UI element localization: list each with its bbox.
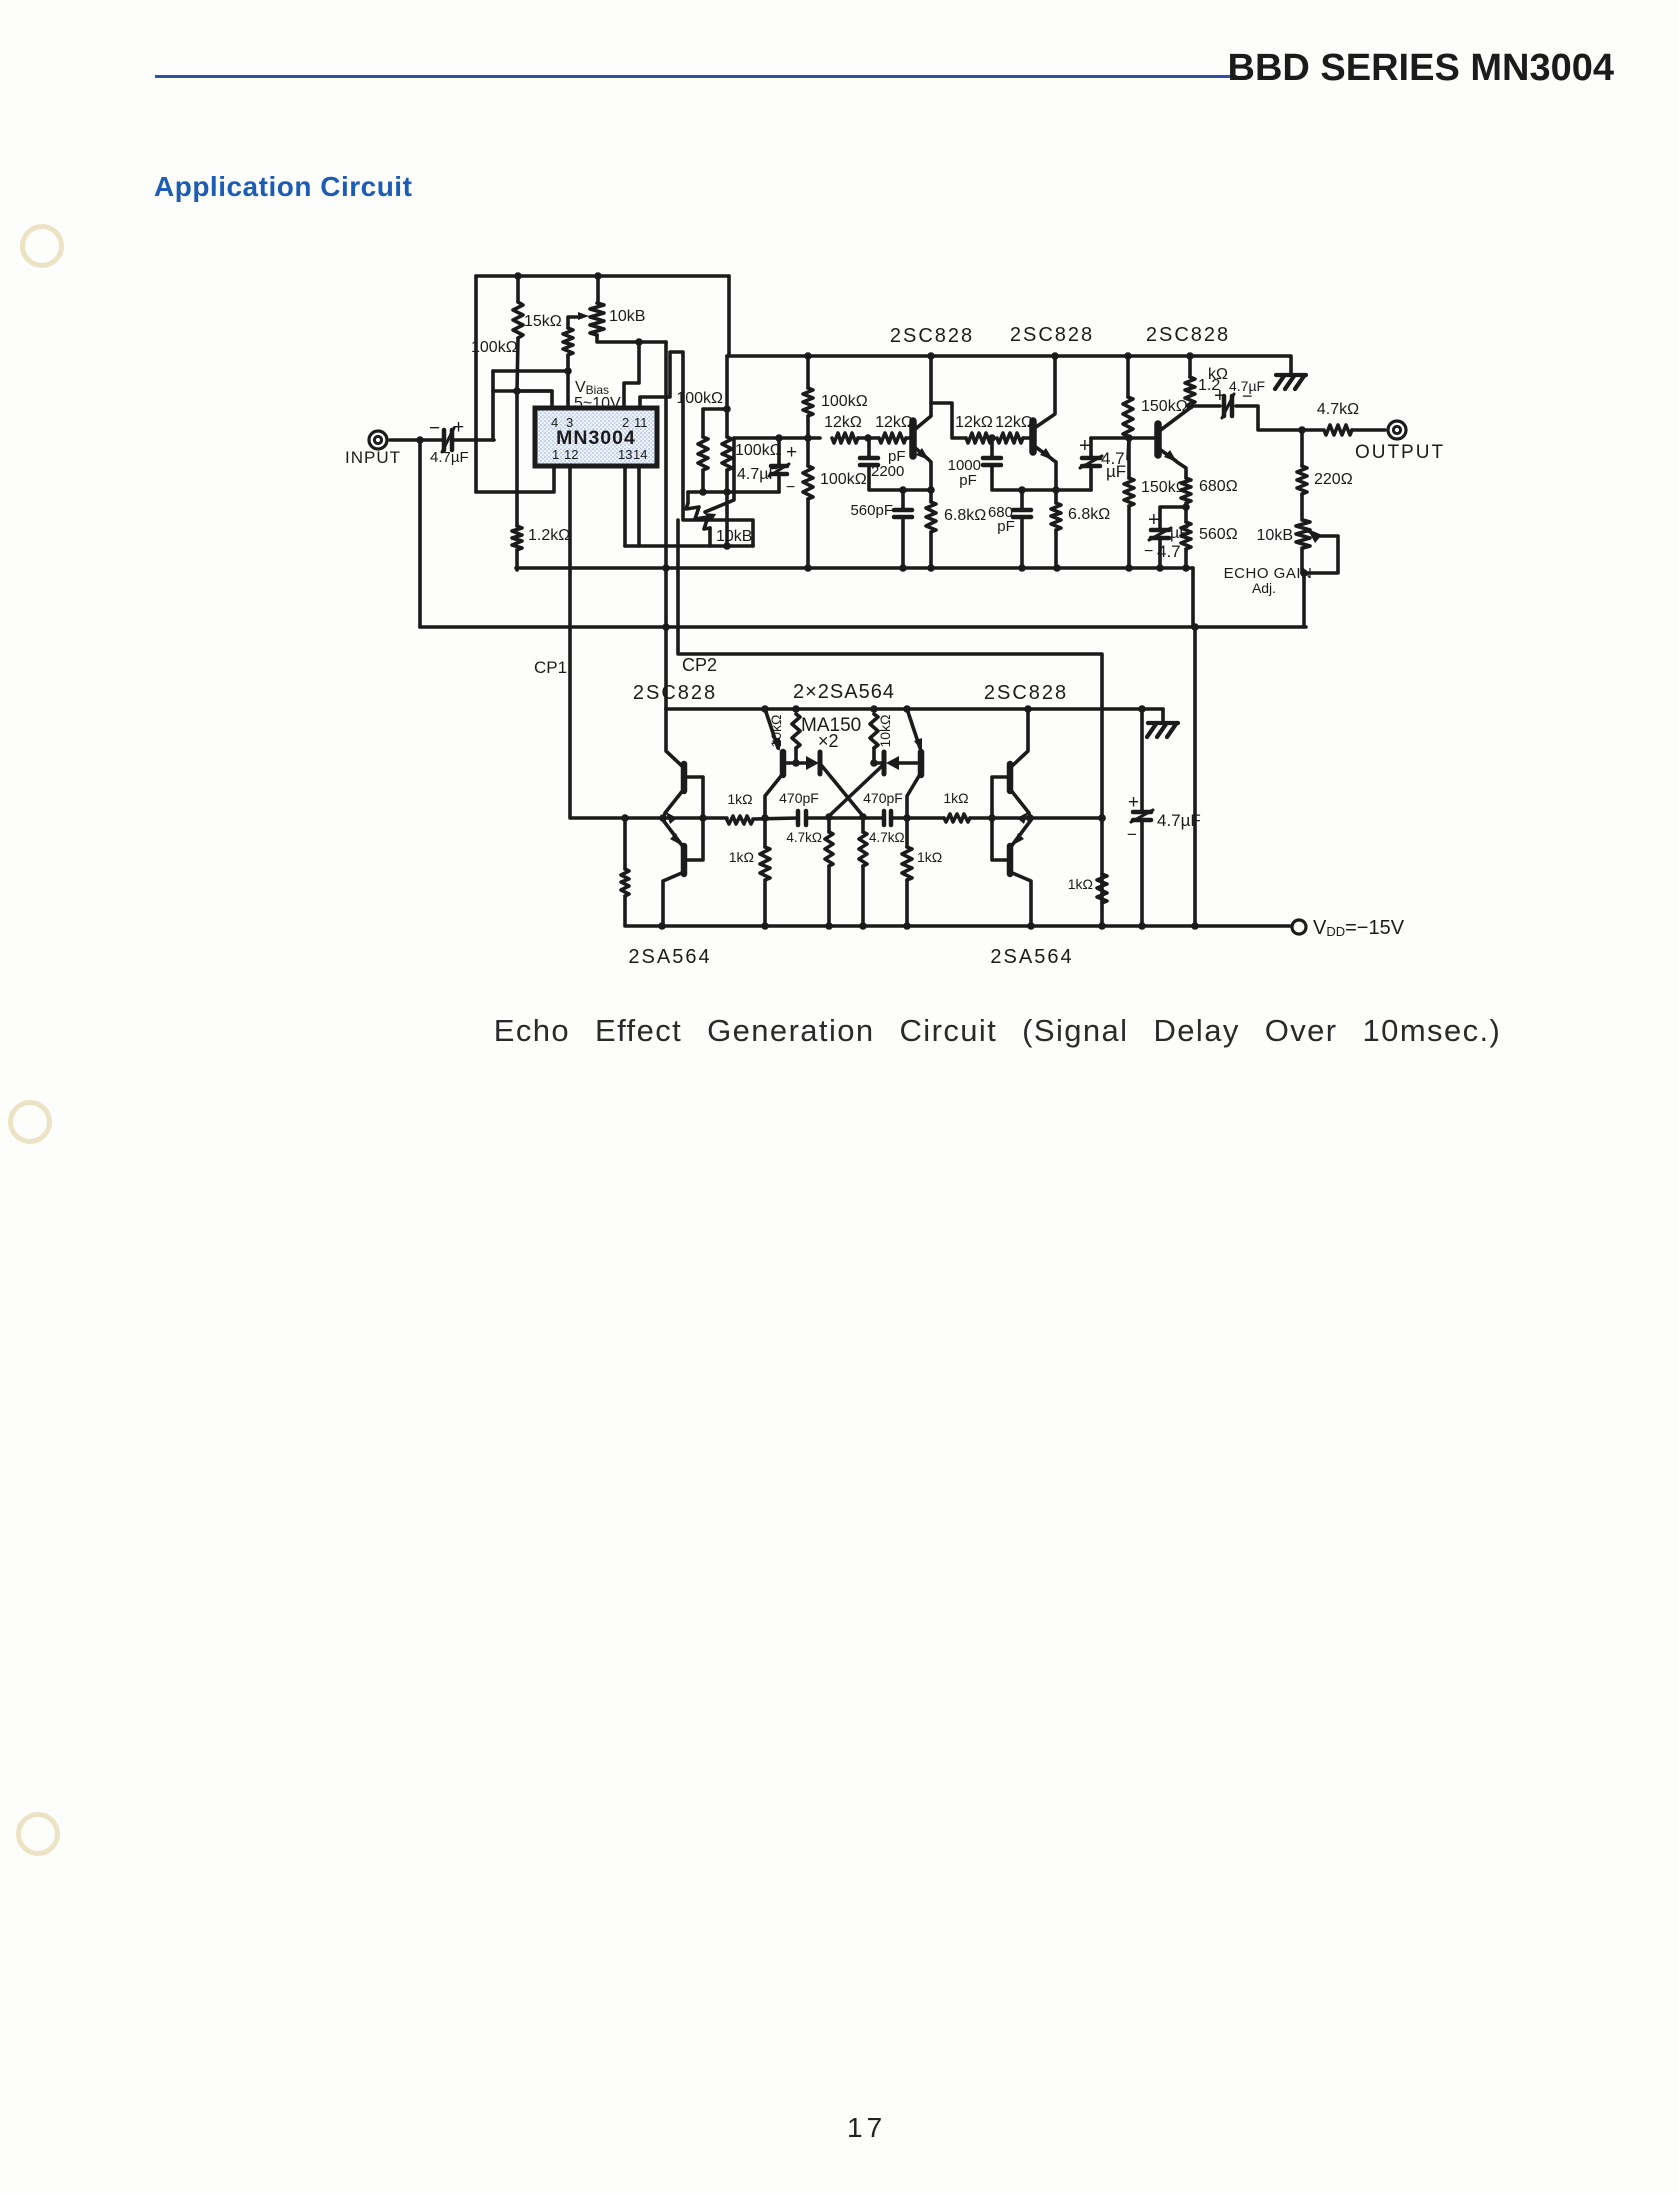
svg-text:4.7kΩ: 4.7kΩ bbox=[786, 830, 822, 845]
svg-text:13: 13 bbox=[618, 447, 632, 462]
svg-text:1kΩ: 1kΩ bbox=[1068, 876, 1093, 892]
svg-text:2200: 2200 bbox=[871, 463, 904, 480]
svg-text:2SC828: 2SC828 bbox=[890, 325, 974, 347]
svg-text:4: 4 bbox=[551, 415, 558, 430]
svg-text:100kΩ: 100kΩ bbox=[471, 339, 518, 356]
svg-text:100kΩ: 100kΩ bbox=[821, 393, 868, 410]
svg-text:+: + bbox=[1214, 385, 1226, 407]
svg-text:µF: µF bbox=[1106, 462, 1126, 481]
svg-text:12kΩ: 12kΩ bbox=[824, 414, 862, 431]
svg-text:4.7kΩ: 4.7kΩ bbox=[869, 830, 905, 845]
svg-text:6.8kΩ: 6.8kΩ bbox=[944, 507, 986, 524]
svg-text:560pF: 560pF bbox=[850, 502, 893, 519]
svg-text:15kΩ: 15kΩ bbox=[524, 313, 562, 330]
svg-text:2SA564: 2SA564 bbox=[990, 946, 1073, 968]
svg-text:pF: pF bbox=[997, 518, 1015, 535]
svg-text:−: − bbox=[1127, 825, 1137, 844]
svg-text:1.2kΩ: 1.2kΩ bbox=[528, 527, 570, 544]
svg-text:100kΩ: 100kΩ bbox=[820, 471, 867, 488]
svg-text:100kΩ: 100kΩ bbox=[676, 390, 723, 407]
svg-text:12kΩ: 12kΩ bbox=[875, 414, 913, 431]
svg-text:+: + bbox=[1148, 509, 1160, 531]
svg-text:680Ω: 680Ω bbox=[1199, 478, 1238, 495]
svg-text:560Ω: 560Ω bbox=[1199, 526, 1238, 543]
svg-text:1kΩ: 1kΩ bbox=[729, 849, 754, 865]
svg-text:INPUT: INPUT bbox=[345, 448, 401, 467]
svg-text:4.7µF: 4.7µF bbox=[430, 449, 469, 466]
svg-text:+: + bbox=[786, 442, 797, 463]
svg-text:2SC828: 2SC828 bbox=[1010, 324, 1094, 346]
svg-text:3: 3 bbox=[566, 415, 573, 430]
svg-text:470pF: 470pF bbox=[863, 790, 903, 806]
svg-text:12: 12 bbox=[564, 447, 578, 462]
svg-text:4.7kΩ: 4.7kΩ bbox=[1317, 401, 1359, 418]
svg-text:CP2: CP2 bbox=[682, 655, 717, 675]
svg-text:−: − bbox=[1144, 543, 1153, 560]
svg-text:150kΩ: 150kΩ bbox=[1141, 398, 1188, 415]
svg-text:4.7µF: 4.7µF bbox=[1157, 811, 1201, 830]
svg-text:−: − bbox=[786, 479, 795, 496]
svg-text:OUTPUT: OUTPUT bbox=[1355, 442, 1445, 463]
svg-text:10kB: 10kB bbox=[609, 308, 645, 325]
svg-text:MN3004: MN3004 bbox=[556, 427, 636, 449]
svg-text:11: 11 bbox=[634, 415, 648, 430]
svg-text:pF: pF bbox=[959, 472, 977, 489]
svg-text:×2: ×2 bbox=[818, 731, 839, 751]
svg-text:1: 1 bbox=[552, 447, 559, 462]
svg-text:2SC828: 2SC828 bbox=[633, 682, 717, 704]
svg-text:µF: µF bbox=[1170, 525, 1189, 542]
svg-text:4.7µF: 4.7µF bbox=[737, 466, 778, 483]
svg-text:2SC828: 2SC828 bbox=[984, 682, 1068, 704]
svg-text:Adj.: Adj. bbox=[1252, 580, 1276, 596]
svg-text:+: + bbox=[1128, 792, 1139, 813]
svg-text:−: − bbox=[1242, 386, 1253, 406]
svg-text:6.8kΩ: 6.8kΩ bbox=[1068, 506, 1110, 523]
svg-text:10kΩ: 10kΩ bbox=[877, 714, 893, 747]
svg-text:VDD=−15V: VDD=−15V bbox=[1313, 917, 1405, 939]
svg-text:2: 2 bbox=[622, 415, 629, 430]
svg-text:2×2SA564: 2×2SA564 bbox=[793, 681, 895, 703]
svg-text:10kB: 10kB bbox=[1257, 527, 1293, 544]
svg-text:220Ω: 220Ω bbox=[1314, 471, 1353, 488]
svg-text:14: 14 bbox=[633, 447, 647, 462]
svg-text:12kΩ: 12kΩ bbox=[995, 414, 1033, 431]
svg-text:+: + bbox=[1079, 435, 1091, 457]
svg-text:2SA564: 2SA564 bbox=[628, 946, 711, 968]
svg-text:100kΩ: 100kΩ bbox=[735, 442, 782, 459]
svg-text:10kΩ: 10kΩ bbox=[768, 714, 784, 747]
svg-text:CP1: CP1 bbox=[534, 658, 567, 677]
svg-text:1kΩ: 1kΩ bbox=[917, 849, 942, 865]
svg-text:4.7: 4.7 bbox=[1157, 542, 1181, 561]
svg-text:150kΩ: 150kΩ bbox=[1141, 479, 1188, 496]
svg-text:1kΩ: 1kΩ bbox=[727, 791, 752, 807]
svg-text:470pF: 470pF bbox=[779, 790, 819, 806]
svg-text:2SC828: 2SC828 bbox=[1146, 324, 1230, 346]
svg-text:10kB: 10kB bbox=[716, 528, 752, 545]
svg-text:1kΩ: 1kΩ bbox=[943, 790, 968, 806]
svg-text:12kΩ: 12kΩ bbox=[955, 414, 993, 431]
svg-text:5~10V: 5~10V bbox=[574, 395, 621, 412]
svg-text:−: − bbox=[429, 418, 440, 439]
svg-text:+: + bbox=[453, 417, 464, 438]
